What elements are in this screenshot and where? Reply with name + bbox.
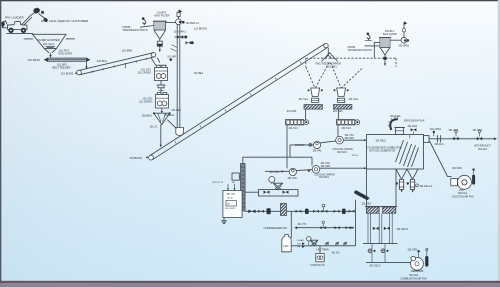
LPG filter pot [281,204,287,216]
svg-text:301 EX1: 301 EX1 [435,143,445,146]
wire header down to LPG bottle [290,211,292,238]
motorised valve under WRH1 [175,35,188,38]
svg-text:301 RAL1-2: 301 RAL1-2 [420,185,433,188]
svg-text:101 BC1: 101 BC1 [97,59,108,63]
earthing symbol [221,218,227,224]
svg-text:DILUTION AIR FAN: DILUTION AIR FAN [453,195,474,198]
svg-text:301 DR5: 301 DR5 [408,249,418,252]
belt conveyor 101 BC1 [77,53,156,75]
rotary feeder 201 WF1 [287,105,323,114]
svg-text:101HBG1: 101HBG1 [142,115,153,118]
crusher 101 CR1 [138,65,168,80]
svg-text:301 CPD1: 301 CPD1 [430,128,442,131]
screw conveyor 201 SC1 [286,120,309,131]
svg-text:PLUG: PLUG [352,155,358,157]
svg-text:N PILOT N: N PILOT N [212,182,223,184]
wire injector A to combustor [343,139,366,141]
svg-text:301 WC1: 301 WC1 [337,151,348,154]
page border top [0,0,500,1]
svg-text:301 OB1: 301 OB1 [362,202,372,205]
fluidised bed combustor 301 FBC1 [367,135,424,170]
svg-text:201 SG1: 201 SG1 [299,98,309,101]
svg-text:BAG FILTER: BAG FILTER [383,33,397,36]
control cabinet 301 GGT1 [223,191,242,218]
svg-text:LPG TRAIN: LPG TRAIN [317,248,329,251]
LPG vaporiser column [241,157,246,211]
svg-text:201 WF1: 201 WF1 [287,110,297,113]
ground line under windbox [363,243,398,245]
svg-text:101HBG2: 101HBG2 [164,114,175,117]
svg-text:IGNITION T/F: IGNITION T/F [311,265,326,267]
svg-text:301 EXF1: 301 EXF1 [390,115,401,118]
rotary feeder 201 WF2 [333,105,352,114]
crusher 101 CR2 [139,93,169,109]
svg-text:101 WR: 101 WR [167,55,176,58]
svg-text:201 SC1: 201 SC1 [289,127,299,130]
LPG cylinder [282,235,291,252]
belt feeder 101 BF1 [28,58,91,70]
svg-text:201 SG2: 201 SG2 [349,98,359,101]
wire diverter to elevator boot [167,120,176,129]
svg-text:101 BW1: 101 BW1 [122,48,134,52]
svg-text:101 BCW1: 101 BCW1 [61,72,75,76]
wire diverter to conveyor 201 [160,125,162,148]
cyclone under bag filter 101 [154,30,166,52]
pressure gauge + seal pot [269,177,283,190]
pump 301 FN2 [265,168,312,179]
gas distributors 301 GD1-2 [368,244,389,268]
svg-text:101 LG: 101 LG [150,126,158,129]
screw conveyor 201 SC3 [337,120,360,131]
conveyor head chute into hopper [322,48,338,62]
wire screw1 to pump FN2 [286,125,288,168]
dump hopper 101 GH1 [24,34,75,48]
bucket elevator 101 BE1 [176,25,184,136]
svg-text:301 GD1-2: 301 GD1-2 [370,265,382,267]
coal injector B 301 CS2 [308,162,335,179]
label FROM TRANSFER POINTS (left) [122,25,154,32]
svg-text:201 BFN1: 201 BFN1 [399,44,410,47]
wire feeder to conveyor tail [86,62,88,67]
svg-text:BAG FILTER: BAG FILTER [155,14,170,18]
svg-text:301 VT1: 301 VT1 [298,224,307,226]
svg-text:301 WC1: 301 WC1 [319,176,330,179]
page border left [0,0,1,287]
svg-text:ROD GATE: ROD GATE [59,51,73,55]
svg-text:301 DR2: 301 DR2 [321,165,331,168]
svg-text:TRANSFER POINTS: TRANSFER POINTS [348,48,373,52]
wire feeder1 to screw1 [305,109,307,119]
svg-text:PAY LOADER: PAY LOADER [5,15,25,19]
svg-text:EXPLOSION FLAP: EXPLOSION FLAP [404,119,425,122]
svg-text:101 BE2M1: 101 BE2M1 [194,27,208,30]
svg-text:CLEAN: CLEAN [297,239,305,242]
svg-text:BELT FEEDER: BELT FEEDER [53,65,71,69]
wire injector B to combustor [320,167,367,169]
svg-text:101 BFN1-2: 101 BFN1-2 [186,22,200,25]
wire LPG train to burner [355,200,357,246]
svg-text:COMPRESSED AIR: COMPRESSED AIR [264,226,287,230]
svg-text:301 GGT1: 301 GGT1 [225,208,236,210]
silo discharge 201 SG2 [334,88,359,102]
coal injector A 301 CS1 [333,134,355,154]
bag filter fan 101 BFN1-2 [166,19,200,25]
diverter gate 101 HBG [142,108,175,129]
page border right [498,0,500,287]
silo discharge 201 SG1 [299,88,323,102]
svg-text:301 DR1: 301 DR1 [345,137,355,140]
cooling water header [243,145,312,166]
label FROM TRANSFER POINTS (right) [348,45,381,52]
FBC feed hopper 201 SB1 (dashed) [306,58,396,88]
dilution air fan 301 FA4 [452,167,475,198]
ignition transformer [311,246,326,267]
bag filter fan 201 BFN1 [390,21,410,47]
svg-text:RAW COAL FEED BY CUSTOMER: RAW COAL FEED BY CUSTOMER [41,19,89,23]
explosion flap 301 EXF1 [388,115,425,135]
head chute conveyor 101 [151,57,167,65]
label 201 BCW1 [130,156,148,160]
svg-text:301 DP1-6: 301 DP1-6 [397,228,409,231]
wire feeder2 to screw2 [337,109,339,119]
svg-text:301 DD4: 301 DD4 [408,125,418,128]
connector between crushers [157,81,166,95]
label 101 BCW1 [61,72,78,76]
wire screw2 to injector A [337,125,339,136]
hot air duct 301 DC1 [429,128,497,151]
svg-text:LPG: LPG [283,244,288,248]
svg-text:201 SC3: 201 SC3 [342,127,352,130]
chute cyclone to elevator [171,45,177,52]
svg-text:GAT CAL: GAT CAL [226,193,236,196]
combustor bed column [367,169,397,206]
svg-text:TRANSFER POINTS: TRANSFER POINTS [122,28,147,32]
vent flag on bag filter fan [177,9,182,18]
svg-text:3 A: 3 A [227,203,231,206]
svg-text:301 PA1: 301 PA1 [313,149,323,152]
damper valve 301 DD4 [408,125,418,135]
combustor ash hoppers [396,169,433,193]
svg-text:301 FN2: 301 FN2 [288,177,298,180]
combustion air main [366,261,411,263]
labels above cabinet [212,182,236,190]
svg-text:101 BE1: 101 BE1 [194,72,204,75]
svg-text:101 WF01: 101 WF01 [28,58,41,62]
windbox / distributor [365,206,397,213]
bag filter 101 BF1 [153,11,170,31]
svg-text:301 FBC1: 301 FBC1 [376,139,387,142]
aux box left of vaporiser [232,173,241,180]
svg-text:301 SG3: 301 SG3 [473,129,483,132]
pump 301 PA1 [290,141,336,153]
compressed air line 301 VT1 [264,221,355,230]
belt conveyor 201 BC1 [149,43,329,160]
diamond valve near head chute [169,58,172,61]
svg-text:301 DR8: 301 DR8 [452,167,462,170]
svg-text:Nnnn: Nnnn [228,198,234,200]
svg-text:101 CRDR1: 101 CRDR1 [138,72,152,75]
svg-text:HOT GAS GENERATOR: HOT GAS GENERATOR [369,150,396,153]
svg-text:COMBUSTION AIR FAN: COMBUSTION AIR FAN [401,277,427,280]
svg-text:201 BCW1: 201 BCW1 [130,156,143,160]
bag filter 201 BF1 [374,30,397,66]
valve with dot 101 [186,41,194,44]
combustor outlet nozzle [424,136,430,143]
burner 301 OB1 [354,190,371,205]
svg-text:201 BE1: 201 BE1 [172,109,182,112]
transfer point icon (right) [365,33,372,41]
page border bottom strip [0,281,500,283]
svg-text:301 DR3: 301 DR3 [295,144,305,147]
svg-text:101 CRDR2: 101 CRDR2 [139,101,153,104]
svg-text:301 DC1: 301 DC1 [478,148,488,151]
pay loader [1,8,48,34]
svg-text:101 GH1: 101 GH1 [43,42,55,46]
dilution air line [430,141,452,177]
transfer point icon (left) [142,17,146,25]
svg-text:301 IG1: 301 IG1 [332,253,341,255]
LPG pipe header [245,204,355,214]
combustion air fan 301 FA2 [401,249,429,281]
bypass loop with valves [245,190,298,196]
rod gate 101 RG1 [44,48,72,57]
windbox legs and DP valves [368,213,409,243]
LPG regulator set [291,237,355,255]
svg-text:201 SB1: 201 SB1 [327,65,338,69]
